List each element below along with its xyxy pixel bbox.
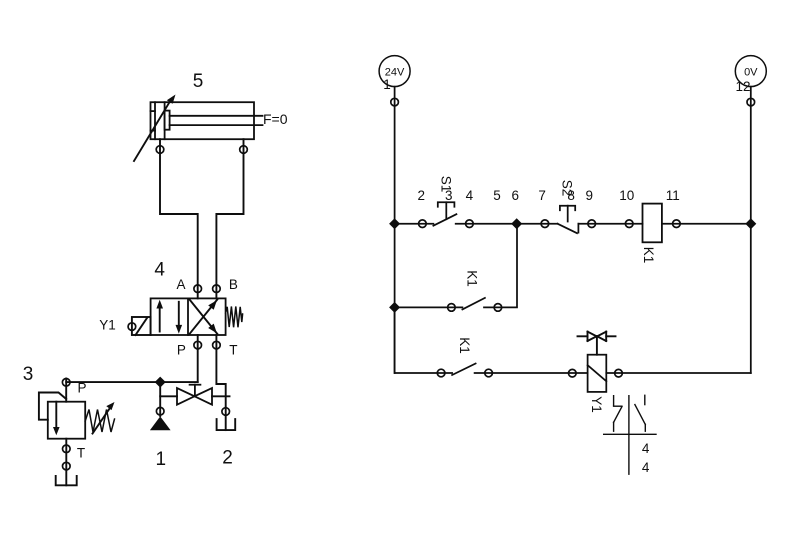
node junction rail-rung1 left xyxy=(389,218,400,229)
relief tank connector xyxy=(63,462,71,470)
svg-text:2: 2 xyxy=(222,448,233,469)
connector 7 xyxy=(541,220,549,228)
connector 24V xyxy=(391,98,399,106)
wire cylinder left port to valve port A xyxy=(160,139,198,285)
svg-text:K1: K1 xyxy=(457,337,472,354)
svg-text:1: 1 xyxy=(156,449,167,470)
shutoff valve bowtie xyxy=(177,385,212,405)
svg-text:3: 3 xyxy=(23,364,34,385)
wire rung1 segment c xyxy=(578,223,642,225)
solenoid coil Y1 xyxy=(588,355,607,392)
wire valve port P down xyxy=(197,349,199,382)
svg-text:K1: K1 xyxy=(641,247,656,264)
connector Y1 left xyxy=(569,369,577,377)
svg-text:F=0: F=0 xyxy=(263,111,288,127)
wire valve port T to tank 2 xyxy=(216,349,225,408)
svg-text:B: B xyxy=(229,277,238,292)
connector rung2 left xyxy=(448,304,456,312)
svg-text:6: 6 xyxy=(512,188,520,203)
svg-text:Y1: Y1 xyxy=(99,318,116,333)
relief valve 3 adjustment arrow xyxy=(93,402,115,434)
svg-text:3: 3 xyxy=(445,188,453,203)
wire 24V rail left xyxy=(394,87,396,373)
wire rung1 segment a xyxy=(395,223,434,225)
tank 2 connector xyxy=(222,408,230,416)
svg-text:9: 9 xyxy=(586,188,594,203)
wire rung3 segment a xyxy=(395,307,453,373)
relief valve 3 flow arrow xyxy=(53,402,60,436)
relief tank symbol xyxy=(56,476,77,485)
cylinder 5 body xyxy=(151,102,255,139)
wire relief P to body xyxy=(65,379,67,402)
connector 9 xyxy=(588,220,596,228)
switch S2 normally-closed pushbutton xyxy=(558,206,579,234)
svg-text:7: 7 xyxy=(538,188,546,203)
relief valve 3 port P connector xyxy=(62,379,70,387)
svg-text:4: 4 xyxy=(466,188,474,203)
svg-text:10: 10 xyxy=(619,188,634,203)
svg-text:T: T xyxy=(77,446,85,461)
wire rung1 segment b xyxy=(456,223,558,225)
relay contact K1 self-hold xyxy=(462,298,485,310)
svg-text:1: 1 xyxy=(383,77,391,92)
tank 2 symbol xyxy=(217,408,236,431)
valve U4 return spring xyxy=(226,307,243,328)
svg-text:P: P xyxy=(77,381,86,396)
svg-text:5: 5 xyxy=(493,188,501,203)
relay coil K1 xyxy=(643,204,662,243)
contact mirror K1 crossbar xyxy=(604,396,656,475)
valve U4 port T connector xyxy=(215,335,217,349)
cylinder 5 adjustment arrow xyxy=(134,95,176,162)
valve U4 port P connector xyxy=(197,335,199,349)
node junction rail-rung1 right xyxy=(745,218,756,229)
connector Y1 right xyxy=(615,369,623,377)
valve U4 port A connector xyxy=(197,285,199,299)
node junction 6 xyxy=(511,218,522,229)
wire cylinder right port to valve port B xyxy=(216,139,243,285)
wire 0V rail right xyxy=(750,87,752,373)
connector rung3 mid xyxy=(485,369,493,377)
cylinder port connector left xyxy=(156,146,164,154)
valve U4 body xyxy=(151,298,226,335)
connector 2 xyxy=(419,220,427,228)
pressure source 1 triangle xyxy=(150,416,171,430)
relief valve 3 port T connector xyxy=(65,439,67,486)
svg-text:11: 11 xyxy=(666,188,680,203)
svg-text:4: 4 xyxy=(642,460,650,475)
svg-text:8: 8 xyxy=(567,188,575,203)
connector 10 xyxy=(625,220,633,228)
cylinder port connector right xyxy=(240,146,248,154)
svg-text:0V: 0V xyxy=(744,66,758,78)
svg-text:K1: K1 xyxy=(465,270,480,287)
svg-text:12: 12 xyxy=(735,79,750,94)
relay contact K1 rung3 xyxy=(452,364,476,376)
svg-text:T: T xyxy=(229,342,237,357)
wire rung2 segment a xyxy=(395,306,463,308)
connector 4 xyxy=(466,220,474,228)
wire rung3 segment b xyxy=(475,372,588,374)
wire shutoff valve to tank line xyxy=(212,395,230,397)
valve U4 left position arrows xyxy=(156,300,182,334)
connector rung2 right xyxy=(494,304,502,312)
contact mirror NO contact left xyxy=(614,396,622,432)
relief valve 3 spring xyxy=(85,410,114,433)
valve link symbol above Y1 xyxy=(578,332,616,355)
connector 0V xyxy=(747,98,755,106)
svg-text:P: P xyxy=(177,342,186,357)
relief valve 3 body xyxy=(48,402,85,439)
supply 0V source xyxy=(735,56,766,87)
connector 11 xyxy=(673,220,681,228)
connector rung3 left xyxy=(437,369,445,377)
svg-text:Y1: Y1 xyxy=(589,396,604,413)
cylinder 5 piston rod xyxy=(170,116,263,125)
svg-text:2: 2 xyxy=(418,188,426,203)
node junction P rail xyxy=(155,377,166,388)
svg-text:A: A xyxy=(176,277,185,292)
wire junction down to pump 1 xyxy=(159,382,161,416)
pump connector circle xyxy=(156,407,164,415)
valve U4 solenoid Y1 xyxy=(128,317,151,335)
valve U4 port B connector xyxy=(215,285,217,299)
wire pressure line P rail xyxy=(66,381,198,383)
wire rung3 segment c xyxy=(606,372,751,374)
svg-text:4: 4 xyxy=(154,260,165,281)
wire rung2 segment b up to node 6 xyxy=(484,224,517,308)
svg-text:5: 5 xyxy=(193,71,204,92)
valve U4 right position crossed arrows xyxy=(189,299,217,335)
relief valve 3 pilot line xyxy=(39,393,66,420)
contact mirror NO contact right xyxy=(635,395,645,431)
wire pump line to shutoff valve xyxy=(160,395,177,397)
wire rung1 segment d xyxy=(662,223,751,225)
node junction rail-rung2 left xyxy=(389,302,400,313)
svg-text:4: 4 xyxy=(642,441,650,456)
switch S1 normally-open pushbutton xyxy=(433,202,456,225)
supply 24V source xyxy=(379,56,410,87)
